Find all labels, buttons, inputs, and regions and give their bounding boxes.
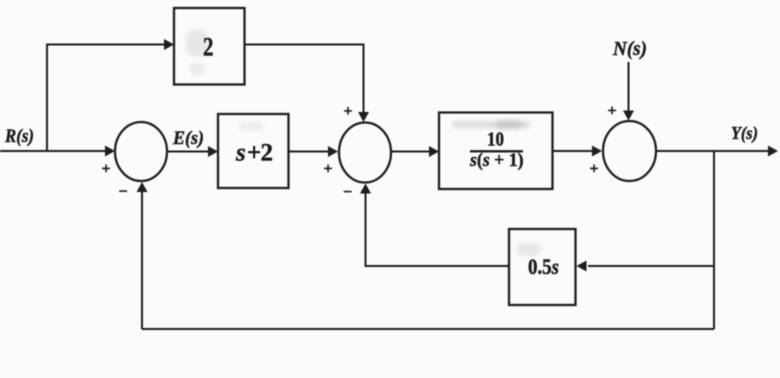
arrowhead into 0.5s block right bbox=[577, 261, 587, 272]
svg-text:+: + bbox=[101, 161, 110, 178]
wire S1 output E(s) bbox=[167, 151, 208, 153]
fraction bar bbox=[470, 150, 523, 152]
wire block s+2 output to S2 bbox=[288, 151, 329, 153]
summer S1 bbox=[115, 122, 167, 181]
arrowhead into S2 left bbox=[328, 146, 338, 157]
svg-text:2: 2 bbox=[203, 33, 214, 62]
arrowhead N(s) into S3 top bbox=[623, 111, 634, 121]
arrowhead into block G bbox=[429, 146, 439, 157]
svg-text:Y(s): Y(s) bbox=[731, 123, 758, 144]
arrowhead Y(s) output bbox=[768, 146, 778, 157]
wire inner feedback to 0.5s block bbox=[588, 265, 714, 267]
arrowhead into S1 bbox=[105, 146, 115, 157]
block 10/s(s+1) bbox=[439, 113, 553, 190]
arrowhead into block 2 bbox=[164, 39, 174, 50]
svg-text:s+2: s+2 bbox=[235, 140, 273, 167]
block 0.5s bbox=[509, 229, 576, 305]
svg-text:s(s + 1): s(s + 1) bbox=[469, 150, 523, 171]
wire N(s) down into S3 bbox=[628, 62, 630, 111]
svg-text:+: + bbox=[607, 103, 616, 120]
wire output junction down bbox=[713, 151, 715, 329]
wire input R(s) bbox=[0, 150, 105, 152]
wire S3 output Y(s) bbox=[656, 150, 768, 152]
svg-text:+: + bbox=[589, 161, 598, 178]
wire S2 output to block G bbox=[391, 151, 429, 153]
summer S2 bbox=[339, 123, 391, 183]
svg-text:+: + bbox=[343, 103, 352, 120]
block 2 bbox=[174, 8, 245, 85]
wire branch up from input to block 2 bbox=[47, 45, 164, 152]
wire block G output to S3 bbox=[552, 150, 593, 152]
svg-text:0.5s: 0.5s bbox=[528, 254, 559, 279]
wire outer feedback bottom bbox=[142, 328, 714, 330]
wire 0.5s output to S2 bottom bbox=[366, 193, 510, 266]
svg-text:10: 10 bbox=[487, 130, 504, 151]
svg-text:E(s): E(s) bbox=[172, 128, 204, 149]
arrowhead into S3 left bbox=[592, 146, 602, 157]
block s+2 bbox=[218, 114, 289, 188]
arrowhead into S2 top bbox=[358, 112, 369, 122]
wire block 2 output to summer S2 top bbox=[244, 45, 364, 113]
arrowhead into S2 bottom bbox=[360, 184, 371, 194]
svg-text:−: − bbox=[118, 184, 127, 201]
svg-text:−: − bbox=[343, 184, 352, 201]
arrowhead into block s+2 bbox=[208, 146, 218, 157]
svg-text:N(s): N(s) bbox=[612, 38, 647, 60]
svg-text:+: + bbox=[323, 161, 332, 178]
arrowhead into S1 bottom bbox=[137, 182, 148, 192]
summer S3 bbox=[603, 121, 656, 181]
wire outer feedback up to S1 bottom bbox=[141, 192, 143, 329]
svg-text:R(s): R(s) bbox=[4, 126, 34, 147]
